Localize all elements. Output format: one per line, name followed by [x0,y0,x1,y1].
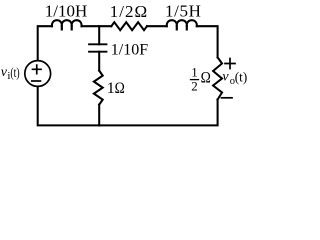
svg-text:1/5H: 1/5H [165,1,202,20]
vo plus sign [225,59,235,69]
vo minus sign [222,97,233,99]
svg-text:Ω: Ω [115,80,125,97]
svg-text:1/10H: 1/10H [45,2,88,21]
capacitor C1 bottom plate [89,51,107,53]
wire right-bottom from R3 down to corner [99,100,217,126]
inductor L2 1/5H [167,20,197,26]
inductor L1 tick 1 [61,26,63,29]
capacitor C1 top plate [89,43,107,45]
svg-text:1/2Ω: 1/2Ω [110,2,148,21]
inductor L1 1/10H [52,20,82,26]
wire bottom-left from node to corner up to source bottom [38,87,99,126]
inductor L2 tick 1 [176,26,178,29]
inductor L2 tick 2 [186,26,188,29]
svg-text:(t): (t) [10,64,19,80]
wire top from L1 past node to resistor R1 [82,25,112,27]
svg-text:1/10F: 1/10F [111,41,148,58]
fraction bar of 1/2 ohm label [191,79,199,81]
inductor L1 tick 2 [71,26,73,29]
svg-text:(t): (t) [235,69,247,85]
wire top from R1 to inductor L2 [147,25,167,27]
wire capacitor to resistor R2 [98,52,100,71]
voltage source plus sign [33,65,42,74]
resistor R1 1/2 ohm horizontal zigzag [111,22,147,30]
wire capacitor top stub [98,26,100,44]
voltage source minus sign [32,80,41,82]
svg-text:1: 1 [107,80,115,97]
wire top-left from source top to corner to inductor L1 [38,26,52,60]
resistor R3 1/2 ohm vertical zigzag [213,57,222,99]
svg-text:Ω: Ω [201,70,211,87]
svg-text:v: v [222,70,229,85]
wire top-right from L2 to corner and down to R3 [197,26,218,57]
resistor R2 1 ohm vertical zigzag [94,71,103,105]
svg-text:2: 2 [191,78,198,93]
voltage source Vi circle [25,61,51,87]
wire R2 to bottom node [98,105,100,126]
